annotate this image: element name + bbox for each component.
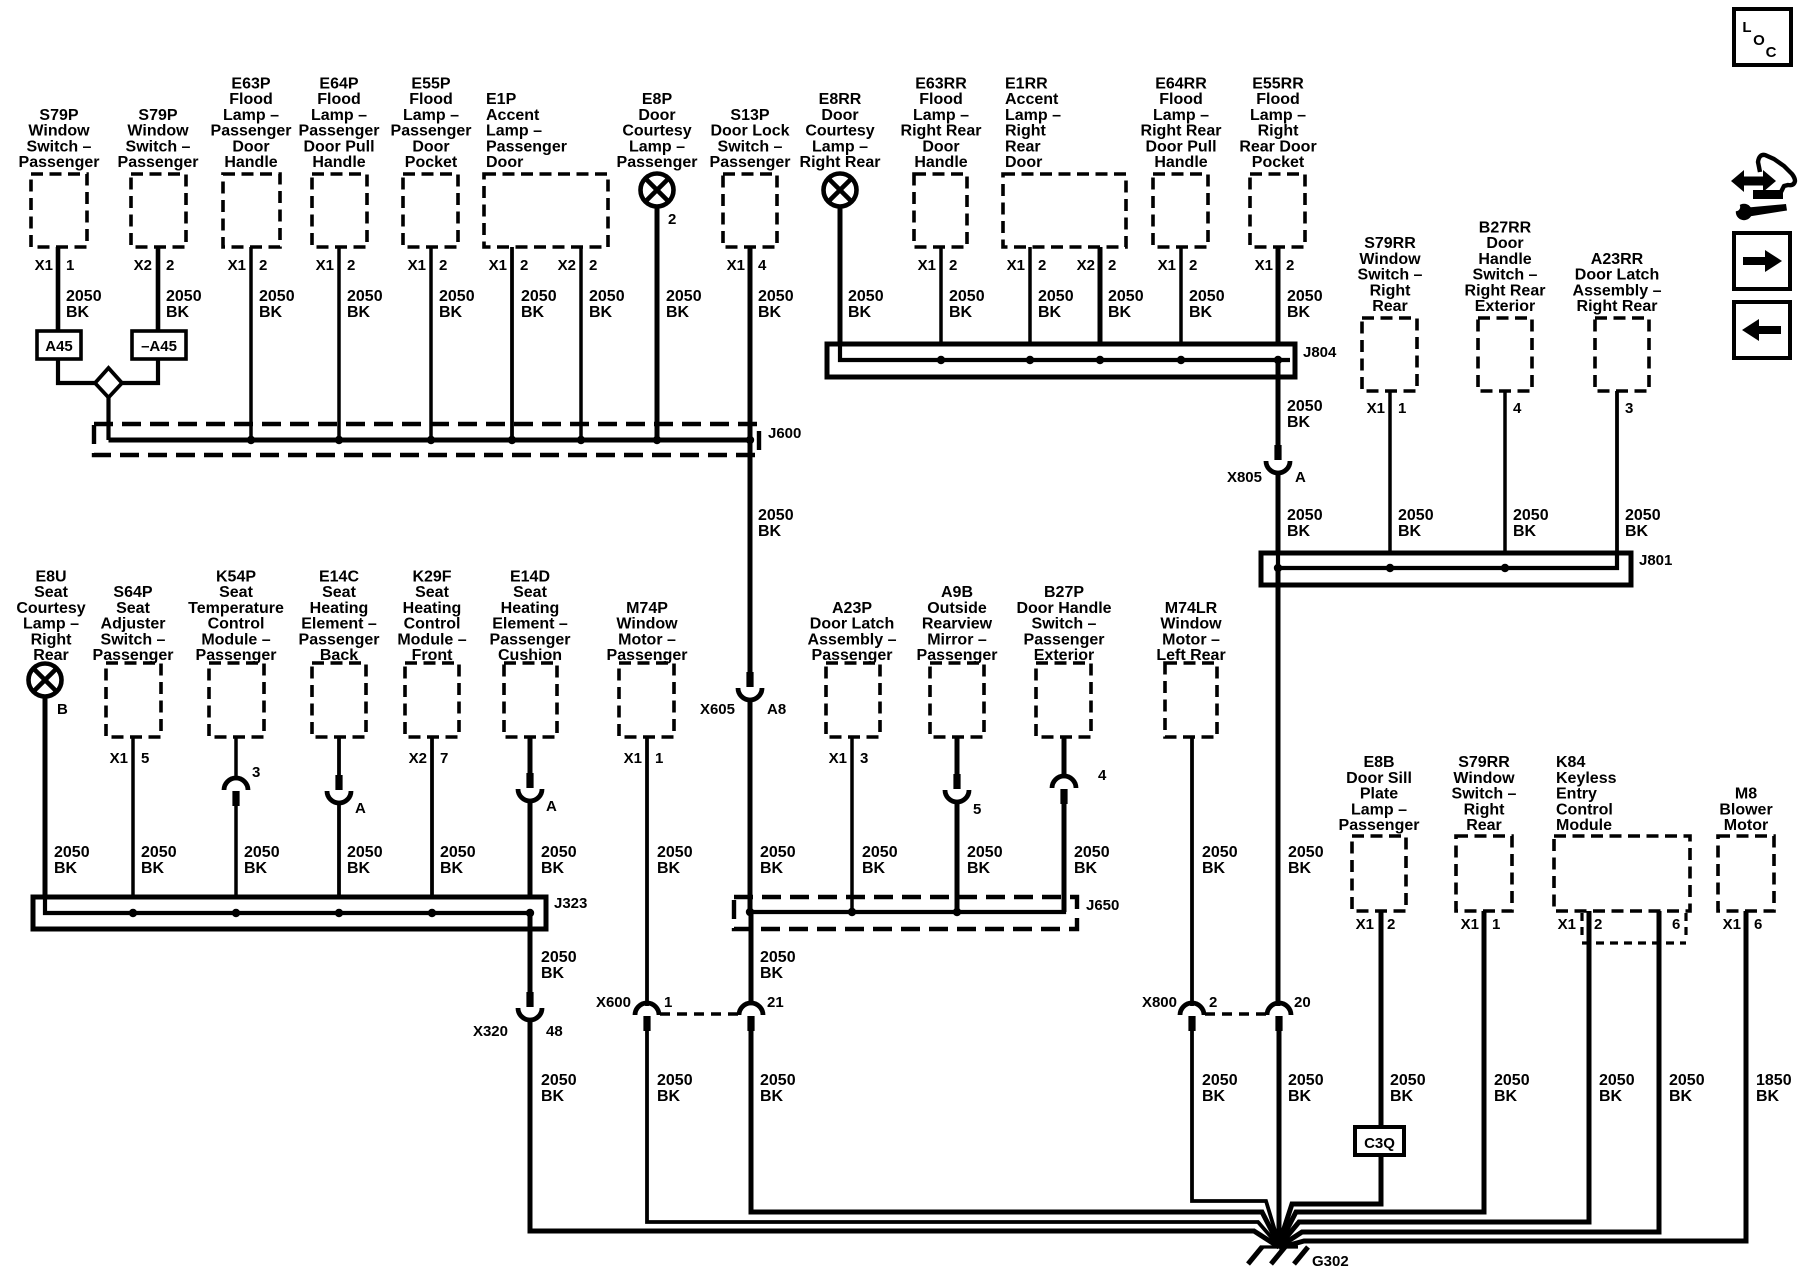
svg-text:Door Sill: Door Sill	[1346, 770, 1412, 787]
pin X1 6 of M8	[1723, 916, 1763, 933]
label X605 A8	[700, 701, 786, 718]
svg-text:Assembly –: Assembly –	[1573, 282, 1662, 299]
svg-text:Window: Window	[1359, 251, 1421, 268]
svg-text:S13P: S13P	[730, 107, 769, 124]
fuse box -A45	[132, 331, 186, 359]
label 2050 BK wire 1192	[1202, 844, 1238, 877]
svg-text:2050: 2050	[1625, 507, 1661, 524]
pin X1 2 of E1P	[489, 257, 529, 274]
wire K54P to connector	[234, 737, 238, 780]
component E14C seat heating element passenger back	[299, 569, 380, 738]
svg-text:BK: BK	[1599, 1088, 1623, 1105]
svg-text:E14C: E14C	[319, 569, 359, 586]
svg-text:Door: Door	[922, 138, 959, 155]
wire K54P connector to J323	[234, 806, 238, 913]
svg-text:Right Rear: Right Rear	[1141, 123, 1222, 140]
svg-text:2050: 2050	[1288, 844, 1324, 861]
svg-text:Mirror –: Mirror –	[927, 631, 987, 648]
wire C3Q to ground run	[1279, 1155, 1381, 1244]
svg-text:X800: X800	[1142, 994, 1177, 1011]
pin X1 2 of E1RR	[1007, 257, 1047, 274]
svg-text:3: 3	[252, 764, 260, 781]
svg-text:Flood: Flood	[409, 91, 453, 108]
svg-text:Control: Control	[1556, 801, 1613, 818]
svg-text:2050: 2050	[760, 1072, 796, 1089]
svg-text:BK: BK	[1287, 304, 1311, 321]
svg-text:X1: X1	[829, 750, 847, 767]
svg-text:BK: BK	[347, 860, 371, 877]
label 2050 BK wire 1278 above J804	[1287, 288, 1323, 321]
svg-text:Accent: Accent	[1005, 91, 1059, 108]
svg-text:Rear: Rear	[33, 647, 69, 664]
wire E63P to J600	[249, 247, 253, 440]
svg-text:Seat: Seat	[322, 584, 356, 601]
wire A23P to J650	[850, 737, 854, 912]
svg-text:C: C	[1766, 44, 1777, 61]
svg-text:Lamp –: Lamp –	[812, 138, 868, 155]
wire X600-21 down to ground run	[751, 1031, 1279, 1245]
pin X1 2 of E64RR	[1158, 257, 1198, 274]
component K84 keyless entry control module	[1554, 754, 1690, 911]
svg-text:BK: BK	[1202, 860, 1226, 877]
pin X1 2 of E64P	[316, 257, 356, 274]
inline connector X600 pin 1	[635, 1003, 659, 1031]
label 2050 BK wire 750 below J650	[760, 949, 796, 982]
svg-text:BK: BK	[1494, 1088, 1518, 1105]
svg-text:Module –: Module –	[201, 631, 270, 648]
svg-text:J650: J650	[1086, 897, 1119, 914]
svg-text:BK: BK	[541, 860, 565, 877]
svg-text:X2: X2	[134, 257, 152, 274]
svg-text:BK: BK	[259, 304, 283, 321]
svg-text:X1: X1	[228, 257, 246, 274]
svg-text:Passenger: Passenger	[490, 631, 571, 648]
svg-text:E63P: E63P	[231, 76, 270, 93]
component K54P seat temperature control module passenger	[188, 569, 284, 738]
label 1850 BK wire 1746	[1756, 1072, 1792, 1105]
svg-text:X320: X320	[473, 1023, 508, 1040]
pin X1 2 of E55RR	[1255, 257, 1295, 274]
svg-text:BK: BK	[758, 523, 782, 540]
svg-text:Handle: Handle	[224, 154, 277, 171]
svg-text:Door Handle: Door Handle	[1016, 600, 1111, 617]
svg-text:2: 2	[1038, 257, 1046, 274]
svg-text:2050: 2050	[589, 288, 625, 305]
pin X1 3 of A23P	[829, 750, 869, 767]
inline connector pin 3 of K54P	[224, 778, 248, 806]
svg-text:Flood: Flood	[229, 91, 273, 108]
svg-text:2050: 2050	[1494, 1072, 1530, 1089]
inline connector pin 5 of A9B	[945, 774, 969, 802]
wire E1P X1 to J600	[510, 247, 514, 440]
svg-text:J801: J801	[1639, 552, 1672, 569]
wire S64P to J323	[131, 737, 135, 913]
svg-text:Handle: Handle	[1154, 154, 1207, 171]
wire K84 pin6 to ground run	[1279, 911, 1659, 1247]
inline connector pin A of E14D	[518, 773, 542, 801]
dashed link X800	[1205, 1012, 1266, 1015]
svg-text:2050: 2050	[1390, 1072, 1426, 1089]
svg-text:E8RR: E8RR	[819, 91, 862, 108]
svg-text:Pocket: Pocket	[1252, 154, 1305, 171]
component B27RR door handle switch right rear exterior	[1465, 220, 1546, 392]
pin X1 2 of E8B	[1356, 916, 1396, 933]
svg-text:S79P: S79P	[138, 107, 177, 124]
component E8P door courtesy lamp passenger	[617, 91, 698, 206]
svg-text:Handle: Handle	[312, 154, 365, 171]
label 2050 BK wire 58	[66, 288, 102, 321]
wire E64P to J600	[337, 247, 341, 440]
svg-text:2050: 2050	[1669, 1072, 1705, 1089]
wire X800-2 down to ground run	[1192, 1031, 1279, 1244]
svg-text:2: 2	[347, 257, 355, 274]
pin X1 1 of S79RR top	[1367, 400, 1407, 417]
svg-text:X1: X1	[316, 257, 334, 274]
component E63RR flood lamp right rear door handle	[901, 76, 982, 248]
svg-text:21: 21	[767, 994, 784, 1011]
svg-text:Window: Window	[127, 123, 189, 140]
svg-text:2050: 2050	[1513, 507, 1549, 524]
svg-text:Outside: Outside	[927, 600, 987, 617]
svg-text:Switch –: Switch –	[1358, 267, 1423, 284]
label 2050 BK wire 647	[657, 844, 693, 877]
svg-text:K54P: K54P	[216, 569, 256, 586]
svg-text:S79P: S79P	[39, 107, 78, 124]
svg-text:2: 2	[259, 257, 267, 274]
svg-text:Passenger: Passenger	[710, 154, 791, 171]
wire K29F to J323	[430, 737, 434, 913]
label 2050 BK wire 1279 below X800	[1288, 1072, 1324, 1105]
svg-text:BK: BK	[1288, 1088, 1312, 1105]
svg-text:Switch –: Switch –	[101, 631, 166, 648]
svg-text:Adjuster: Adjuster	[101, 616, 166, 633]
svg-text:Door: Door	[821, 107, 858, 124]
svg-text:Blower: Blower	[1719, 801, 1772, 818]
pin X1 4 of S13P	[727, 257, 767, 274]
svg-text:Exterior: Exterior	[1034, 647, 1094, 664]
svg-text:1: 1	[664, 994, 672, 1011]
svg-text:Lamp –: Lamp –	[1005, 107, 1061, 124]
wire X600-1 down to ground run	[647, 1031, 1279, 1246]
svg-text:2050: 2050	[66, 288, 102, 305]
svg-text:2050: 2050	[657, 844, 693, 861]
svg-text:Entry: Entry	[1556, 786, 1597, 803]
label 2050 BK wire 750 above X605	[758, 507, 794, 540]
svg-text:BK: BK	[848, 304, 872, 321]
svg-text:2: 2	[520, 257, 528, 274]
svg-text:–A45: –A45	[141, 338, 177, 355]
svg-text:X1: X1	[1461, 916, 1479, 933]
label 2050 BK wire 1617	[1625, 507, 1661, 540]
svg-text:Motor: Motor	[1724, 817, 1768, 834]
svg-text:X600: X600	[596, 994, 631, 1011]
svg-text:BK: BK	[967, 860, 991, 877]
svg-text:B: B	[57, 701, 68, 718]
component A23RR door latch assembly right rear	[1573, 251, 1662, 391]
svg-text:E64P: E64P	[319, 76, 358, 93]
wire E1P X2 to J600	[579, 247, 583, 440]
junction dots on J801	[1274, 564, 1509, 572]
svg-text:Switch –: Switch –	[126, 138, 191, 155]
svg-text:Passenger: Passenger	[486, 138, 567, 155]
svg-text:Passenger: Passenger	[19, 154, 100, 171]
label 2050 BK wire 1381	[1390, 1072, 1426, 1105]
svg-text:X1: X1	[1367, 400, 1385, 417]
bus J323 wire line	[45, 897, 530, 913]
back arrow box	[1734, 302, 1790, 358]
svg-text:1: 1	[66, 257, 74, 274]
svg-text:Window: Window	[616, 616, 678, 633]
svg-text:BK: BK	[1108, 304, 1132, 321]
svg-text:Right Rear: Right Rear	[1465, 282, 1546, 299]
svg-text:2050: 2050	[1074, 844, 1110, 861]
wire E14D connector to J323	[528, 800, 533, 913]
splice diamond node	[95, 368, 122, 398]
svg-text:Handle: Handle	[1478, 251, 1531, 268]
label 2050 BK wire 236	[244, 844, 280, 877]
svg-text:X1: X1	[1356, 916, 1374, 933]
svg-text:BK: BK	[166, 304, 190, 321]
svg-text:K84: K84	[1556, 754, 1585, 771]
label 2050 BK wire 1589	[1599, 1072, 1635, 1105]
label 2050 BK wire 133	[141, 844, 177, 877]
inline connector X600 pin 21	[739, 1003, 763, 1031]
svg-text:Switch –: Switch –	[718, 138, 783, 155]
label 2050 BK wire 512	[521, 288, 557, 321]
svg-text:X1: X1	[727, 257, 745, 274]
svg-text:K29F: K29F	[412, 569, 451, 586]
svg-text:X1: X1	[1158, 257, 1176, 274]
junction dots on J600	[247, 436, 754, 444]
svg-text:1: 1	[1492, 916, 1500, 933]
inline connector X320 pin 48	[518, 992, 542, 1020]
svg-text:Door: Door	[232, 138, 269, 155]
component E1RR accent lamp right rear door	[1003, 76, 1126, 248]
wire S79RR bottom to ground run	[1279, 911, 1484, 1245]
wire S13P below J650 to X600 pin 21	[749, 912, 754, 1004]
svg-text:Switch –: Switch –	[1452, 786, 1517, 803]
junction dots on J650	[746, 908, 961, 916]
svg-text:L: L	[1742, 19, 1751, 36]
wire E8U to J323	[43, 696, 48, 913]
svg-text:Temperature: Temperature	[188, 600, 284, 617]
component E55RR flood lamp right rear door pocket	[1239, 76, 1316, 248]
svg-text:X1: X1	[35, 257, 53, 274]
wire diamond to bus J600	[106, 398, 110, 441]
wire E14D to connector	[528, 737, 533, 775]
component S79P window switch passenger (2)	[118, 107, 199, 247]
splice bus J650 dashed box	[734, 897, 1077, 929]
label 2050 BK wire 431	[439, 288, 475, 321]
splice bus J801 box	[1261, 553, 1631, 585]
svg-text:Passenger: Passenger	[211, 123, 292, 140]
svg-text:Passenger: Passenger	[917, 647, 998, 664]
inline connector pin 4 of B27P	[1052, 776, 1076, 804]
svg-text:Right: Right	[1464, 801, 1506, 818]
svg-text:BK: BK	[589, 304, 613, 321]
svg-text:B27RR: B27RR	[1479, 220, 1532, 237]
svg-text:2050: 2050	[1287, 507, 1323, 524]
wire A23RR to J801	[1615, 391, 1619, 568]
label 2050 BK wire 45	[54, 844, 90, 877]
svg-text:E63RR: E63RR	[915, 76, 967, 93]
svg-text:BK: BK	[141, 860, 165, 877]
svg-text:Pocket: Pocket	[405, 154, 458, 171]
svg-text:2050: 2050	[54, 844, 90, 861]
label 2050 BK wire 657	[666, 288, 702, 321]
pin X2 7 of K29F	[409, 750, 449, 767]
svg-text:Right Rear: Right Rear	[800, 154, 881, 171]
svg-text:BK: BK	[666, 304, 690, 321]
label 2050 BK wire 1278 above X805	[1287, 398, 1323, 431]
svg-text:Module: Module	[1556, 817, 1612, 834]
label 2050 BK wire 251	[259, 288, 295, 321]
svg-text:Seat: Seat	[415, 584, 449, 601]
svg-text:M8: M8	[1735, 786, 1757, 803]
svg-text:2050: 2050	[1202, 844, 1238, 861]
svg-text:Left Rear: Left Rear	[1156, 647, 1225, 664]
svg-text:2050: 2050	[1108, 288, 1144, 305]
svg-text:48: 48	[546, 1023, 563, 1040]
svg-text:2050: 2050	[347, 288, 383, 305]
svg-text:Right: Right	[1258, 123, 1300, 140]
svg-text:BK: BK	[1287, 523, 1311, 540]
svg-text:E55P: E55P	[411, 76, 450, 93]
svg-text:Right: Right	[1005, 123, 1047, 140]
pin X1 2 of K84	[1558, 916, 1603, 933]
component M8 blower motor	[1718, 786, 1774, 911]
svg-text:2050: 2050	[541, 1072, 577, 1089]
svg-text:X1: X1	[408, 257, 426, 274]
svg-text:Element –: Element –	[492, 616, 568, 633]
wire S13P down to J600	[748, 247, 753, 440]
LOC legend box	[1734, 9, 1791, 65]
svg-text:BK: BK	[1189, 304, 1213, 321]
wire E63RR to J804	[939, 247, 943, 360]
forward arrow box	[1734, 233, 1790, 289]
svg-text:Passenger: Passenger	[607, 647, 688, 664]
svg-text:Window: Window	[1160, 616, 1222, 633]
svg-text:3: 3	[1625, 400, 1633, 417]
label 2050 BK wire 339	[347, 288, 383, 321]
svg-text:E8P: E8P	[642, 91, 673, 108]
svg-text:A9B: A9B	[941, 584, 973, 601]
svg-text:A: A	[1295, 469, 1306, 486]
svg-text:X1: X1	[110, 750, 128, 767]
component A9B outside rearview mirror passenger	[917, 584, 998, 737]
svg-text:Door: Door	[486, 154, 523, 171]
svg-text:X1: X1	[489, 257, 507, 274]
label 2050 BK wire 432	[440, 844, 476, 877]
svg-text:A: A	[546, 798, 557, 815]
svg-text:BK: BK	[760, 965, 784, 982]
svg-text:Element –: Element –	[301, 616, 377, 633]
svg-text:1850: 1850	[1756, 1072, 1792, 1089]
pin X1 5 of S64P	[110, 750, 150, 767]
svg-text:Passenger: Passenger	[118, 154, 199, 171]
splice bus J323 box	[33, 897, 546, 929]
svg-text:BK: BK	[439, 304, 463, 321]
pin X2 2 of E1RR	[1077, 257, 1117, 274]
svg-text:BK: BK	[862, 860, 886, 877]
svg-text:Passenger: Passenger	[299, 631, 380, 648]
inline connector X805 pin A	[1266, 445, 1290, 473]
svg-text:Heating: Heating	[501, 600, 560, 617]
svg-text:2050: 2050	[244, 844, 280, 861]
svg-text:Assembly –: Assembly –	[808, 631, 897, 648]
svg-text:2050: 2050	[949, 288, 985, 305]
wire E8P to J600	[655, 206, 660, 440]
svg-text:Front: Front	[412, 647, 454, 664]
bus J600 wire line	[109, 438, 752, 443]
svg-text:2050: 2050	[758, 507, 794, 524]
label 2050 BK wire 751 below X600	[760, 1072, 796, 1105]
label X600 1 21	[596, 994, 784, 1011]
svg-text:X1: X1	[1255, 257, 1273, 274]
wire A45 to splice diamond	[58, 359, 95, 383]
svg-text:X1: X1	[1723, 916, 1741, 933]
svg-text:Control: Control	[208, 616, 265, 633]
svg-text:2050: 2050	[760, 844, 796, 861]
svg-text:4: 4	[1513, 400, 1522, 417]
label X800 2 20	[1142, 994, 1311, 1011]
component S13P door lock switch passenger	[710, 107, 791, 247]
svg-text:BK: BK	[347, 304, 371, 321]
svg-text:Heating: Heating	[403, 600, 462, 617]
svg-text:Door: Door	[412, 138, 449, 155]
svg-text:Lamp –: Lamp –	[1250, 107, 1306, 124]
svg-text:G302: G302	[1312, 1253, 1349, 1270]
component E8B door sill plate lamp passenger	[1339, 754, 1420, 911]
svg-text:Heating: Heating	[310, 600, 369, 617]
wire S13P J600 to X605	[748, 440, 753, 673]
svg-text:2: 2	[1286, 257, 1294, 274]
svg-text:BK: BK	[1287, 414, 1311, 431]
svg-text:Plate: Plate	[1360, 786, 1398, 803]
svg-text:2: 2	[1209, 994, 1217, 1011]
svg-text:2050: 2050	[1288, 1072, 1324, 1089]
svg-text:A23RR: A23RR	[1591, 251, 1644, 268]
wire S79P-2 to fuse -A45	[156, 247, 161, 331]
svg-text:X605: X605	[700, 701, 735, 718]
component S79RR window switch right rear (top)	[1358, 235, 1423, 391]
svg-text:2050: 2050	[1287, 288, 1323, 305]
svg-text:C3Q: C3Q	[1364, 1135, 1395, 1152]
svg-text:Lamp –: Lamp –	[486, 123, 542, 140]
svg-text:J804: J804	[1303, 344, 1337, 361]
svg-text:Control: Control	[404, 616, 461, 633]
pin X1 1 of S79P (1)	[35, 257, 75, 274]
svg-text:Lamp –: Lamp –	[1153, 107, 1209, 124]
svg-text:BK: BK	[949, 304, 973, 321]
label 2050 BK wire 941	[949, 288, 985, 321]
svg-text:2050: 2050	[541, 949, 577, 966]
svg-text:X2: X2	[1077, 257, 1095, 274]
wire E1RR X1 to J804	[1028, 247, 1032, 360]
svg-text:X1: X1	[624, 750, 642, 767]
svg-text:1: 1	[1398, 400, 1406, 417]
splice bus J600 dashed box	[94, 424, 759, 455]
svg-text:6: 6	[1672, 916, 1680, 933]
pin X1 1 of S79RR bottom	[1461, 916, 1501, 933]
svg-text:X2: X2	[409, 750, 427, 767]
label 2050 BK wire 1278 below J801	[1288, 844, 1324, 877]
component K29F seat heating control module front	[397, 569, 466, 738]
fuse box A45	[37, 331, 81, 359]
pointing-hand navigation icon	[1731, 155, 1795, 220]
svg-text:Flood: Flood	[919, 91, 963, 108]
svg-text:B27P: B27P	[1044, 584, 1084, 601]
